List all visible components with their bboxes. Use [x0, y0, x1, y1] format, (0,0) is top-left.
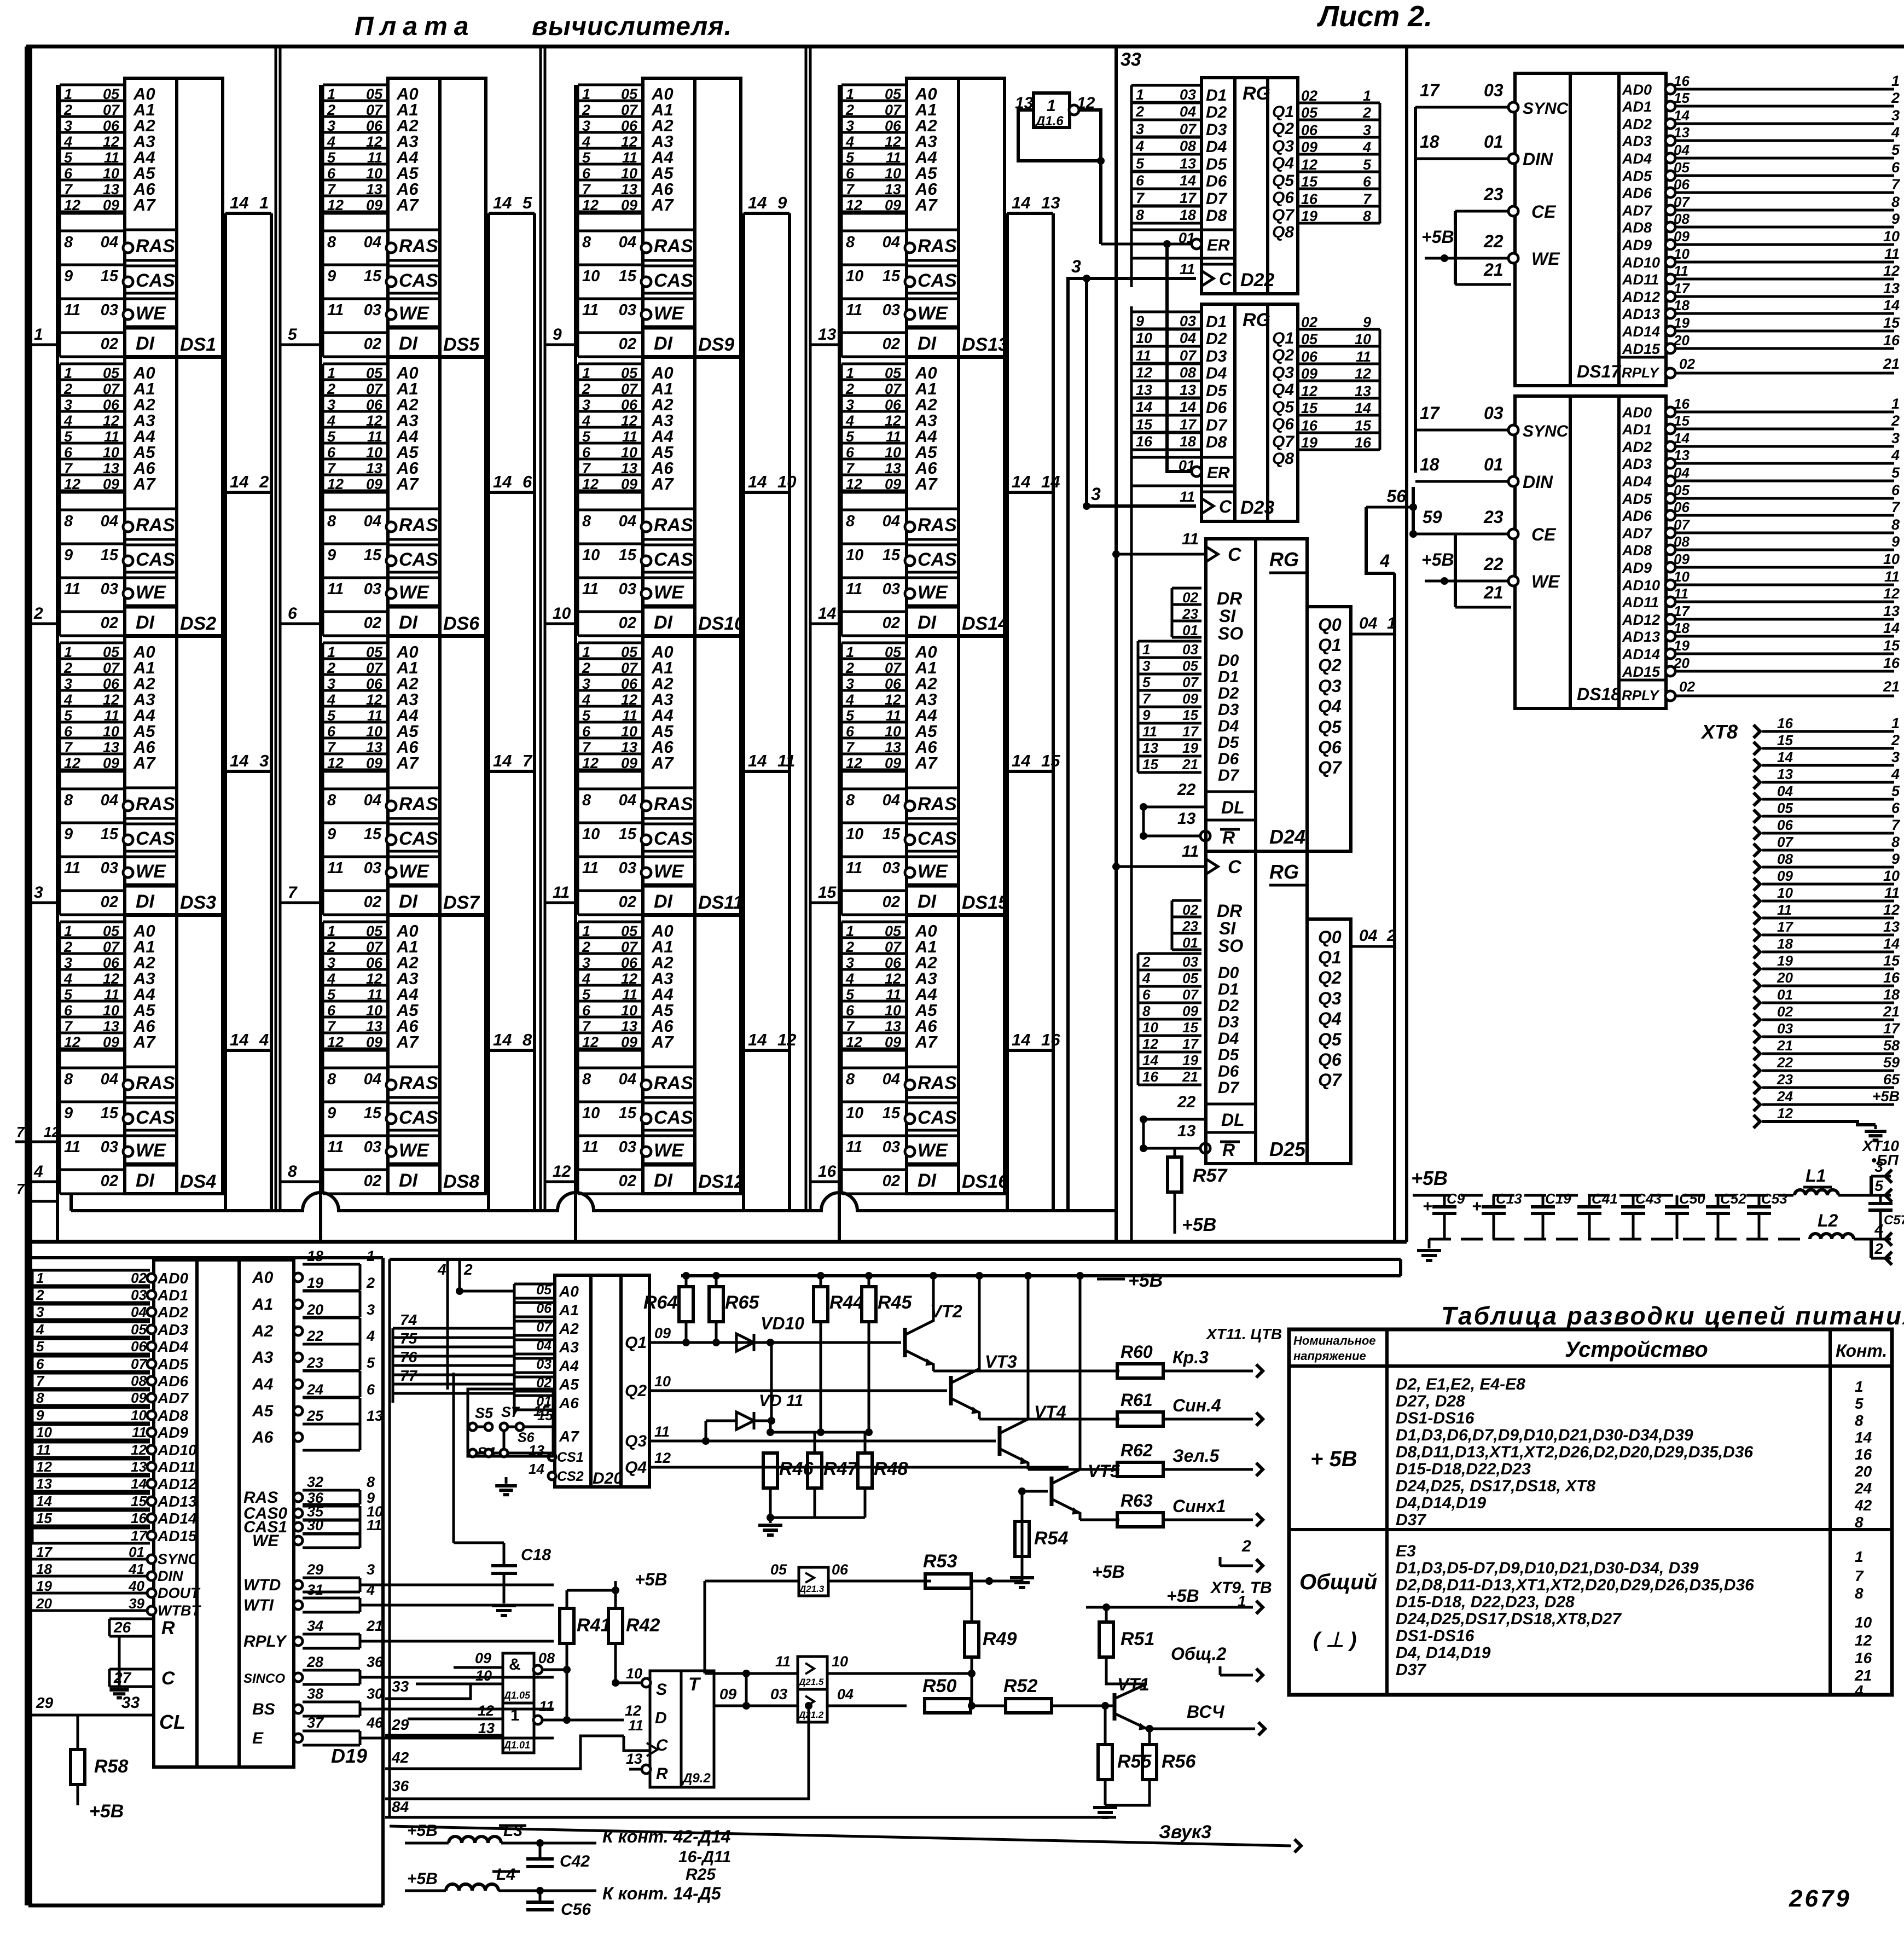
svg-text:3: 3	[582, 676, 590, 692]
svg-text:AD12: AD12	[1622, 289, 1660, 305]
svg-text:56: 56	[1386, 486, 1406, 506]
svg-text:CS2: CS2	[557, 1469, 584, 1484]
svg-text:07: 07	[1777, 834, 1793, 850]
svg-text:15: 15	[883, 1105, 901, 1122]
svg-text:05: 05	[1301, 331, 1318, 347]
svg-text:RAS: RAS	[136, 1073, 175, 1094]
svg-text:WE: WE	[918, 582, 948, 603]
svg-text:3: 3	[64, 397, 72, 413]
DRAM chip DS3	[60, 642, 125, 644]
svg-text:13: 13	[103, 1018, 119, 1035]
wire +5B collector feed	[1027, 1276, 1030, 1408]
svg-text:33: 33	[1121, 49, 1141, 70]
svg-text:12: 12	[582, 1034, 599, 1050]
XT8 contact 24	[1754, 1098, 1760, 1111]
DRAM chip DS4	[60, 921, 125, 923]
svg-text:12: 12	[64, 755, 80, 771]
svg-text:AD0: AD0	[1622, 404, 1652, 421]
svg-text:12: 12	[846, 197, 862, 213]
svg-text:AD10: AD10	[157, 1442, 197, 1458]
svg-text:WE: WE	[399, 303, 429, 324]
svg-text:+5B: +5B	[1872, 1088, 1900, 1105]
svg-text:Лист 2.: Лист 2.	[1316, 0, 1432, 33]
svg-text:AD1: AD1	[1622, 421, 1652, 438]
svg-text:D22: D22	[1240, 270, 1274, 290]
svg-text:1: 1	[1891, 396, 1900, 412]
svg-text:A7: A7	[133, 474, 156, 493]
wire from D1.6 pin 13	[1018, 110, 1101, 161]
svg-text:13: 13	[1674, 124, 1690, 141]
svg-text:12: 12	[327, 755, 344, 771]
svg-text:06: 06	[885, 118, 902, 134]
svg-text:5: 5	[1891, 464, 1900, 481]
svg-text:14: 14	[1883, 935, 1900, 952]
svg-text:10: 10	[582, 1105, 600, 1122]
svg-text:07: 07	[366, 939, 384, 955]
svg-text:7: 7	[1855, 1567, 1864, 1584]
svg-text:6: 6	[1136, 172, 1145, 189]
svg-text:15: 15	[131, 1493, 147, 1509]
svg-text:A4: A4	[252, 1375, 274, 1393]
svg-text:AD12: AD12	[157, 1475, 197, 1492]
XT8 contact 08	[1754, 861, 1760, 874]
svg-text:5: 5	[327, 428, 336, 445]
svg-text:AD13: AD13	[1622, 629, 1660, 645]
svg-text:D4, D14,D19: D4, D14,D19	[1396, 1644, 1491, 1662]
+5B stub below memory box	[1097, 1278, 1125, 1281]
svg-text:11: 11	[846, 301, 862, 319]
svg-text:11: 11	[1142, 723, 1157, 740]
capacitor C41 (С41)	[1588, 1195, 1591, 1207]
svg-text:16: 16	[1674, 396, 1690, 412]
XT8 contact 18	[1754, 945, 1760, 958]
svg-text:10: 10	[885, 723, 901, 740]
svg-text:1: 1	[1891, 715, 1900, 731]
svg-text:SYNC: SYNC	[1523, 422, 1569, 440]
svg-text:09: 09	[1182, 1003, 1198, 1019]
svg-text:09: 09	[103, 476, 119, 492]
svg-text:10: 10	[621, 723, 637, 740]
svg-text:DS14: DS14	[962, 613, 1008, 634]
register ladder bus down to D24/D25	[1130, 306, 1133, 1242]
svg-text:12: 12	[582, 476, 599, 492]
svg-text:AD7: AD7	[1622, 202, 1653, 219]
DRAM chip DS5	[323, 84, 388, 86]
svg-text:14: 14	[230, 751, 248, 770]
wire net 75 into D20	[393, 1346, 514, 1349]
svg-text:5: 5	[1874, 1177, 1883, 1194]
svg-text:15: 15	[1674, 90, 1690, 106]
svg-text:15: 15	[1041, 751, 1060, 770]
svg-text:6: 6	[846, 165, 855, 182]
svg-text:11: 11	[327, 1138, 344, 1156]
svg-text:22: 22	[1483, 554, 1504, 574]
svg-text:18: 18	[1420, 455, 1439, 474]
svg-text:11: 11	[846, 580, 862, 598]
svg-text:WE: WE	[654, 1140, 684, 1161]
svg-text:CAS: CAS	[136, 270, 175, 291]
resistor R61 / output Син.4	[979, 1418, 1119, 1421]
svg-text:08: 08	[131, 1373, 147, 1389]
svg-text:16: 16	[1136, 433, 1153, 450]
svg-text:3: 3	[582, 118, 590, 134]
svg-text:AD1: AD1	[1622, 98, 1652, 115]
svg-text:CAS: CAS	[654, 549, 693, 570]
svg-text:11: 11	[367, 1517, 382, 1533]
DRAM chip DS12	[578, 921, 643, 923]
svg-text:Q4: Q4	[1318, 696, 1342, 716]
svg-text:12: 12	[621, 133, 637, 150]
capacitor C43 (С43)	[1632, 1195, 1635, 1207]
svg-text:58: 58	[1883, 1037, 1900, 1054]
svg-text:DI: DI	[136, 333, 155, 354]
group 1 tall output box right edge	[270, 213, 273, 1211]
svg-text:8: 8	[1136, 207, 1144, 223]
svg-text:Q1: Q1	[625, 1334, 647, 1352]
svg-text:02: 02	[101, 335, 118, 353]
svg-text:DS2: DS2	[180, 613, 216, 634]
svg-text:06: 06	[131, 1338, 147, 1355]
svg-text:31: 31	[307, 1582, 323, 1598]
svg-text:16: 16	[131, 1510, 147, 1526]
svg-text:10: 10	[832, 1653, 848, 1670]
svg-text:03: 03	[619, 859, 636, 877]
Q3 line	[649, 1440, 996, 1443]
svg-text:AD4: AD4	[1622, 473, 1652, 490]
svg-text:13: 13	[366, 460, 382, 476]
svg-text:13: 13	[366, 181, 382, 197]
svg-text:03: 03	[619, 580, 636, 598]
svg-text:1: 1	[64, 644, 72, 660]
svg-text:12: 12	[366, 133, 382, 150]
svg-text:02: 02	[883, 893, 900, 911]
svg-text:A7: A7	[133, 753, 156, 772]
svg-text:DI: DI	[918, 1170, 937, 1191]
svg-text:A3: A3	[559, 1339, 579, 1356]
svg-text:11: 11	[622, 149, 637, 166]
svg-text:VD 11: VD 11	[759, 1392, 803, 1410]
svg-text:06: 06	[366, 397, 383, 413]
svg-text:A2: A2	[559, 1320, 579, 1337]
svg-text:14: 14	[748, 472, 767, 491]
svg-text:06: 06	[1301, 348, 1318, 365]
D19 enclosure box	[28, 1256, 383, 1259]
svg-text:21: 21	[1883, 678, 1900, 695]
svg-text:8: 8	[1855, 1585, 1864, 1602]
svg-text:D6: D6	[1206, 399, 1227, 417]
XT8 contact 19	[1754, 962, 1760, 975]
svg-text:+5B: +5B	[1128, 1270, 1163, 1291]
svg-text:Q2: Q2	[1318, 655, 1342, 675]
svg-text:DIN: DIN	[158, 1568, 183, 1584]
svg-text:04: 04	[883, 513, 900, 530]
svg-text:06: 06	[832, 1561, 849, 1578]
svg-text:WE: WE	[399, 861, 429, 882]
svg-text:4: 4	[582, 412, 590, 429]
svg-text:5: 5	[846, 149, 855, 166]
svg-text:02: 02	[883, 614, 900, 632]
svg-text:8: 8	[64, 513, 73, 530]
svg-text:8: 8	[64, 792, 73, 809]
svg-text:DI: DI	[654, 891, 674, 912]
svg-text:+5B: +5B	[407, 1822, 438, 1840]
svg-text:CAS: CAS	[399, 828, 438, 849]
svg-text:R65: R65	[725, 1292, 759, 1313]
svg-text:C: C	[161, 1668, 175, 1689]
svg-text:2: 2	[63, 939, 72, 955]
svg-text:4: 4	[1874, 1221, 1883, 1238]
svg-text:RAS: RAS	[136, 794, 175, 815]
svg-text:AD15: AD15	[1622, 664, 1661, 680]
svg-text:33: 33	[121, 1694, 140, 1712]
svg-text:5: 5	[582, 149, 591, 166]
svg-text:04: 04	[883, 792, 900, 809]
svg-text:D1,D3,D6,D7,D9,D10,D21,D30-D34: D1,D3,D6,D7,D9,D10,D21,D30-D34,D39	[1396, 1426, 1693, 1444]
svg-text:05: 05	[366, 923, 383, 939]
svg-text:A7: A7	[915, 1032, 938, 1051]
group 4 tall output box right edge	[1052, 213, 1055, 1211]
extra DI stub net 7 for DS4	[26, 1200, 57, 1203]
svg-text:AD14: AD14	[1622, 323, 1660, 340]
svg-text:AD4: AD4	[157, 1338, 188, 1355]
svg-text:12: 12	[327, 1034, 344, 1050]
svg-text:33: 33	[392, 1678, 409, 1695]
svg-text:Q4: Q4	[1318, 1009, 1342, 1028]
gate input wires	[408, 1718, 503, 1721]
XT8 contact 23	[1754, 1081, 1760, 1094]
svg-text:Q3: Q3	[1272, 137, 1294, 155]
svg-text:17: 17	[131, 1527, 147, 1544]
svg-text:10: 10	[582, 268, 600, 285]
svg-text:13: 13	[1883, 919, 1900, 935]
svg-text:6: 6	[64, 444, 73, 461]
svg-text:09: 09	[1674, 551, 1690, 567]
wire C clock net 3 to D22	[1068, 278, 1196, 1211]
svg-text:16: 16	[1855, 1446, 1872, 1463]
svg-text:09: 09	[103, 197, 119, 213]
svg-text:13: 13	[885, 739, 901, 756]
svg-text:AD10: AD10	[1622, 254, 1660, 271]
svg-text:19: 19	[1301, 434, 1317, 451]
svg-text:5: 5	[64, 707, 73, 724]
svg-text:16-Д11: 16-Д11	[678, 1848, 731, 1866]
svg-text:3: 3	[846, 397, 854, 413]
svg-text:WE: WE	[399, 582, 429, 603]
svg-text:WE: WE	[136, 303, 166, 324]
svg-text:13: 13	[1674, 447, 1690, 463]
svg-text:15: 15	[818, 884, 837, 902]
svg-text:23: 23	[1777, 1071, 1793, 1088]
wire net 77 into D20	[393, 1383, 514, 1386]
svg-text:WE: WE	[918, 1140, 948, 1161]
svg-text:1: 1	[327, 923, 335, 939]
svg-text:04: 04	[883, 1071, 900, 1088]
svg-text:03: 03	[1180, 313, 1196, 329]
svg-text:21: 21	[366, 1618, 383, 1634]
svg-text:DS12: DS12	[698, 1171, 745, 1192]
svg-text:С19: С19	[1545, 1190, 1571, 1207]
svg-text:+: +	[1472, 1198, 1482, 1216]
svg-text:03: 03	[1180, 86, 1196, 103]
wires 4 and 2 from box top	[446, 1259, 449, 1390]
svg-text:17: 17	[1180, 190, 1197, 206]
svg-text:12: 12	[846, 755, 862, 771]
svg-text:06: 06	[366, 118, 383, 134]
svg-text:WE: WE	[1531, 572, 1560, 591]
svg-text:Q5: Q5	[1318, 717, 1342, 737]
svg-text:12: 12	[103, 133, 119, 150]
svg-text:К конт. 42-Д14: К конт. 42-Д14	[602, 1827, 731, 1846]
svg-text:7: 7	[16, 1124, 25, 1140]
svg-text:RAS: RAS	[136, 515, 175, 536]
svg-text:10: 10	[1355, 331, 1371, 347]
svg-text:12: 12	[621, 412, 637, 429]
svg-text:06: 06	[103, 397, 120, 413]
svg-text:R53: R53	[923, 1551, 957, 1572]
svg-text:18: 18	[1674, 297, 1690, 313]
svg-text:7: 7	[1891, 499, 1901, 515]
svg-text:6: 6	[367, 1381, 375, 1398]
svg-text:11: 11	[1777, 902, 1792, 918]
svg-text:5: 5	[64, 986, 73, 1003]
svg-text:AD2: AD2	[1622, 439, 1652, 455]
XT8 contact 06	[1754, 827, 1760, 840]
svg-text:3: 3	[846, 955, 854, 971]
svg-text:05: 05	[885, 923, 902, 939]
svg-text:16: 16	[1355, 434, 1372, 451]
svg-text:03: 03	[536, 1357, 552, 1372]
svg-text:DI: DI	[136, 891, 155, 912]
svg-text:07: 07	[366, 102, 384, 118]
svg-text:11: 11	[1136, 347, 1151, 364]
svg-text:D5: D5	[1218, 734, 1240, 752]
svg-text:2: 2	[845, 939, 854, 955]
svg-text:28: 28	[306, 1654, 323, 1670]
svg-text:DI: DI	[654, 1170, 674, 1191]
svg-text:11: 11	[104, 707, 119, 724]
svg-text:9: 9	[1891, 533, 1900, 550]
svg-text:15: 15	[364, 826, 382, 843]
svg-text:RAS: RAS	[918, 794, 957, 815]
svg-text:14: 14	[493, 751, 512, 770]
svg-text:Синх1: Синх1	[1172, 1496, 1226, 1516]
register D23	[1130, 312, 1133, 515]
D19 input DOUT	[32, 1592, 148, 1595]
svg-text:11: 11	[582, 1138, 599, 1156]
svg-text:13: 13	[103, 460, 119, 476]
svg-text:6: 6	[64, 723, 73, 740]
svg-text:16: 16	[1883, 655, 1900, 671]
svg-text:14: 14	[493, 1030, 512, 1049]
svg-text:CAS: CAS	[399, 270, 438, 291]
svg-text:A7: A7	[915, 474, 938, 493]
svg-text:4: 4	[582, 133, 590, 150]
svg-text:CAS: CAS	[136, 828, 175, 849]
svg-text:8: 8	[846, 513, 855, 530]
svg-text:3: 3	[1891, 430, 1900, 446]
svg-text:A7: A7	[915, 195, 938, 214]
svg-text:11: 11	[1180, 261, 1195, 277]
svg-text:05: 05	[366, 86, 383, 102]
DRAM chip DS14	[841, 363, 907, 365]
svg-text:AD9: AD9	[1622, 560, 1652, 576]
svg-text:2: 2	[1891, 412, 1900, 429]
group 3 tall output box right edge	[788, 213, 791, 1211]
svg-text:14: 14	[230, 472, 248, 491]
svg-text:13: 13	[1883, 603, 1900, 619]
svg-text:RAS: RAS	[399, 515, 438, 536]
svg-text:AD15: AD15	[157, 1527, 197, 1544]
svg-text:15: 15	[364, 1105, 382, 1122]
svg-text:7: 7	[64, 739, 73, 756]
svg-text:11: 11	[622, 428, 637, 445]
svg-text:A0: A0	[252, 1269, 274, 1287]
net 33 vertical	[1114, 47, 1118, 1211]
svg-text:D6: D6	[1218, 750, 1239, 768]
svg-text:DS17: DS17	[1577, 362, 1622, 381]
svg-text:11: 11	[582, 580, 599, 598]
svg-text:&: &	[509, 1655, 521, 1673]
resistor R45	[868, 1276, 870, 1287]
svg-text:A7: A7	[651, 753, 674, 772]
svg-text:11: 11	[1356, 348, 1371, 365]
Q4 line	[649, 1466, 1069, 1469]
svg-text:1: 1	[510, 1706, 520, 1724]
svg-text:Q1: Q1	[1272, 103, 1294, 121]
svg-text:2: 2	[327, 381, 335, 397]
svg-text:11: 11	[1674, 263, 1688, 279]
svg-text:18: 18	[1420, 132, 1439, 152]
svg-text:+5B: +5B	[1421, 227, 1454, 247]
svg-text:11: 11	[553, 884, 570, 902]
svg-text:D24,D25, DS17,DS18, XT8: D24,D25, DS17,DS18, XT8	[1396, 1477, 1596, 1495]
svg-text:06: 06	[885, 955, 902, 971]
svg-text:05: 05	[1674, 159, 1690, 176]
svg-text:01: 01	[1182, 622, 1198, 638]
svg-text:CAS: CAS	[918, 828, 957, 849]
svg-text:10: 10	[885, 444, 901, 461]
svg-text:05: 05	[621, 365, 638, 381]
svg-text:74: 74	[400, 1311, 417, 1328]
svg-text:19: 19	[1674, 315, 1690, 331]
svg-text:03: 03	[1484, 403, 1504, 423]
svg-text:A7: A7	[396, 195, 419, 214]
svg-text:A7: A7	[396, 1032, 419, 1051]
svg-text:30: 30	[307, 1517, 323, 1533]
svg-text:4: 4	[327, 691, 335, 708]
svg-text:14: 14	[1355, 400, 1371, 416]
svg-text:Звук3: Звук3	[1159, 1822, 1211, 1843]
svg-text:12: 12	[621, 691, 637, 708]
svg-text:WTBT: WTBT	[158, 1602, 201, 1619]
svg-text:4: 4	[845, 133, 854, 150]
svg-text:14: 14	[230, 1030, 248, 1049]
svg-text:03: 03	[1484, 80, 1504, 100]
svg-text:2: 2	[63, 660, 72, 676]
svg-text:14: 14	[1041, 472, 1060, 491]
svg-text:07: 07	[1674, 516, 1690, 533]
svg-text:03: 03	[770, 1686, 788, 1702]
D19 input WTBT	[32, 1609, 148, 1612]
svg-text:11: 11	[132, 1424, 147, 1440]
svg-text:13: 13	[366, 1018, 382, 1035]
svg-text:Q4: Q4	[1272, 154, 1294, 172]
svg-text:9: 9	[327, 1105, 336, 1122]
svg-text:RAS: RAS	[918, 515, 957, 536]
svg-text:4: 4	[1142, 970, 1151, 986]
svg-text:DI: DI	[918, 612, 937, 633]
svg-text:06: 06	[885, 676, 902, 692]
